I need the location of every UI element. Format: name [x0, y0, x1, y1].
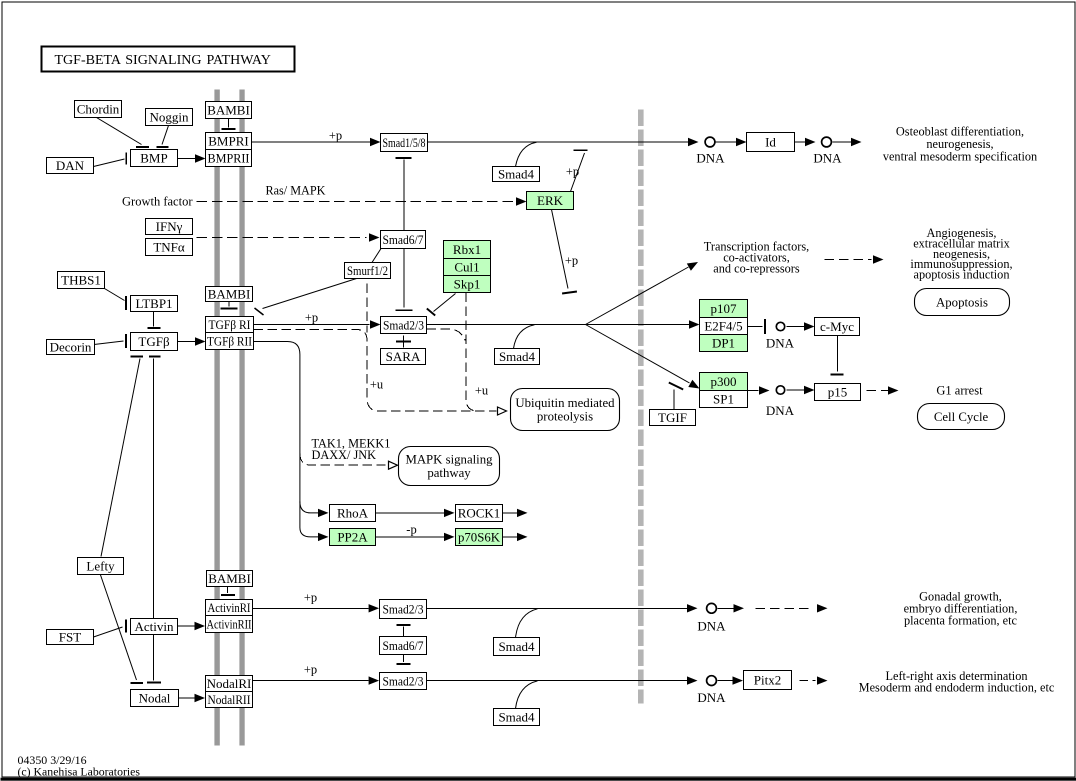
svg-text:pathway: pathway — [427, 466, 471, 480]
svg-text:Smurf1/2: Smurf1/2 — [347, 263, 388, 278]
svg-text:Smad6/7: Smad6/7 — [383, 232, 424, 247]
svg-text:Nodal: Nodal — [139, 690, 171, 705]
svg-text:placenta formation, etc: placenta formation, etc — [904, 614, 1018, 628]
svg-text:p70S6K: p70S6K — [458, 529, 501, 544]
svg-text:ventral mesoderm specification: ventral mesoderm specification — [883, 149, 1037, 163]
svg-text:and co-repressors: and co-repressors — [713, 262, 800, 276]
svg-text:Growth factor: Growth factor — [122, 195, 193, 209]
svg-text:p15: p15 — [828, 384, 848, 399]
svg-text:Activin: Activin — [135, 619, 174, 634]
svg-text:Smad4: Smad4 — [498, 639, 535, 654]
svg-text:BAMBI: BAMBI — [207, 102, 250, 117]
svg-text:+p: +p — [304, 591, 317, 605]
svg-text:apoptosis induction: apoptosis induction — [914, 268, 1010, 282]
svg-text:DP1: DP1 — [712, 335, 735, 350]
svg-text:DNA: DNA — [766, 336, 795, 351]
svg-text:THBS1: THBS1 — [61, 272, 101, 287]
svg-text:LTBP1: LTBP1 — [135, 296, 172, 311]
svg-text:Skp1: Skp1 — [454, 276, 481, 291]
svg-text:NodalRII: NodalRII — [208, 692, 251, 707]
svg-text:+p: +p — [305, 311, 318, 325]
svg-text:BMP: BMP — [140, 150, 167, 165]
svg-text:Ubiquitin mediated: Ubiquitin mediated — [515, 396, 615, 410]
svg-text:SP1: SP1 — [713, 391, 734, 406]
svg-text:DNA: DNA — [697, 619, 726, 634]
svg-text:RhoA: RhoA — [337, 505, 369, 520]
svg-text:+p: +p — [304, 663, 317, 677]
svg-text:BMPRII: BMPRII — [208, 150, 250, 165]
svg-text:BAMBI: BAMBI — [208, 571, 251, 586]
svg-text:Ras/ MAPK: Ras/ MAPK — [266, 184, 326, 198]
svg-text:ERK: ERK — [537, 193, 564, 208]
svg-text:+p: +p — [329, 129, 342, 143]
svg-text:+u: +u — [475, 384, 489, 398]
svg-text:E2F4/5: E2F4/5 — [704, 318, 742, 333]
svg-text:Rbx1: Rbx1 — [453, 242, 481, 257]
svg-text:+p: +p — [566, 165, 579, 179]
svg-text:DNA: DNA — [697, 690, 726, 705]
svg-text:PP2A: PP2A — [337, 529, 368, 544]
svg-text:IFNγ: IFNγ — [156, 219, 183, 234]
svg-text:DAXX/ JNK: DAXX/ JNK — [312, 448, 377, 462]
svg-text:Smad1/5/8: Smad1/5/8 — [383, 135, 426, 150]
svg-text:Cell Cycle: Cell Cycle — [934, 410, 989, 424]
svg-text:Apoptosis: Apoptosis — [936, 295, 988, 309]
svg-text:Mesoderm and endoderm inductio: Mesoderm and endoderm induction, etc — [859, 680, 1055, 694]
svg-text:MAPK signaling: MAPK signaling — [405, 453, 493, 467]
svg-text:ActivinRI: ActivinRI — [208, 600, 251, 615]
svg-text:Pitx2: Pitx2 — [754, 672, 781, 687]
svg-text:Id: Id — [765, 134, 776, 149]
svg-text:proteolysis: proteolysis — [537, 410, 593, 424]
svg-text:Smad4: Smad4 — [498, 709, 535, 724]
svg-text:BMPRI: BMPRI — [208, 133, 248, 148]
svg-text:Smad4: Smad4 — [498, 166, 535, 181]
svg-text:DNA: DNA — [696, 151, 725, 166]
svg-text:DNA: DNA — [813, 151, 842, 166]
svg-text:BAMBI: BAMBI — [208, 286, 251, 301]
svg-text:TGF-BETA SIGNALING PATHWAY: TGF-BETA SIGNALING PATHWAY — [55, 53, 271, 68]
svg-text:NodalRI: NodalRI — [207, 676, 252, 691]
svg-text:G1 arrest: G1 arrest — [936, 384, 983, 398]
svg-text:FST: FST — [59, 629, 81, 644]
svg-text:ActivinRII: ActivinRII — [207, 616, 252, 631]
svg-text:DAN: DAN — [56, 158, 85, 173]
svg-text:(c) Kanehisa Laboratories: (c) Kanehisa Laboratories — [18, 764, 141, 778]
svg-text:Smad2/3: Smad2/3 — [383, 317, 424, 332]
svg-text:+p: +p — [565, 254, 578, 268]
svg-text:TNFα: TNFα — [153, 239, 185, 254]
svg-text:c-Myc: c-Myc — [820, 319, 854, 334]
svg-text:Smad4: Smad4 — [499, 349, 536, 364]
svg-text:+u: +u — [370, 378, 384, 392]
svg-text:TGFβ RII: TGFβ RII — [207, 333, 252, 348]
svg-text:Smad2/3: Smad2/3 — [383, 601, 424, 616]
svg-text:SARA: SARA — [386, 349, 421, 364]
svg-text:Cul1: Cul1 — [454, 259, 479, 274]
svg-text:TGFβ: TGFβ — [138, 334, 170, 349]
svg-text:ROCK1: ROCK1 — [458, 505, 501, 520]
svg-text:Chordin: Chordin — [77, 101, 120, 116]
svg-text:Noggin: Noggin — [150, 109, 190, 124]
svg-text:Smad2/3: Smad2/3 — [383, 673, 424, 688]
svg-text:TGFβ RI: TGFβ RI — [209, 317, 251, 332]
svg-text:TGIF: TGIF — [658, 410, 687, 425]
svg-text:p300: p300 — [711, 374, 737, 389]
svg-text:Smad6/7: Smad6/7 — [383, 638, 424, 653]
svg-text:Lefty: Lefty — [86, 558, 115, 573]
svg-text:Decorin: Decorin — [50, 339, 92, 354]
svg-text:DNA: DNA — [766, 403, 795, 418]
svg-text:-p: -p — [406, 523, 416, 537]
svg-text:p107: p107 — [711, 301, 738, 316]
